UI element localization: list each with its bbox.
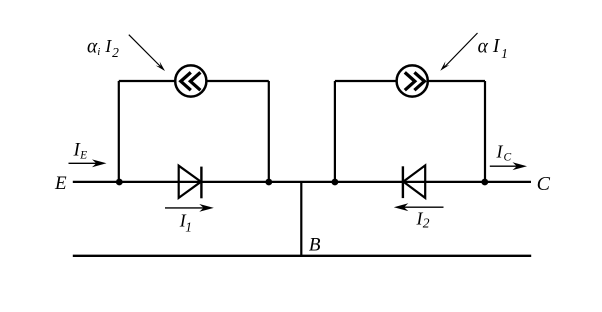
pointer arrow to U2 [440, 33, 477, 71]
svg-text:I1: I1 [179, 211, 192, 235]
current source U2 alpha*I1 [397, 65, 428, 96]
arrow IC current direction [490, 162, 527, 170]
arrow IE current direction [69, 159, 107, 167]
svg-text:IE: IE [73, 139, 88, 161]
svg-text:αI1: αI1 [478, 36, 508, 61]
wire right loop right vertical [484, 81, 486, 182]
wire right loop top [335, 80, 485, 82]
wire base vertical [300, 182, 302, 256]
node dot left loop right [265, 179, 272, 186]
wire left loop top [119, 80, 269, 82]
svg-text:B: B [309, 234, 321, 255]
svg-text:αiI2: αiI2 [87, 36, 119, 60]
wire main line E to C [73, 181, 531, 183]
diode D1 (emitter junction) [179, 166, 202, 199]
svg-text:I2: I2 [416, 208, 430, 230]
wire left loop right vertical [268, 81, 270, 182]
node dot E1 [116, 179, 123, 186]
node dot right loop left [332, 179, 339, 186]
current source U1 alpha_i*I2 [175, 65, 206, 96]
wire base bottom line [73, 255, 531, 257]
node dot C1 [481, 179, 488, 186]
svg-text:C: C [537, 173, 551, 195]
svg-text:IC: IC [496, 141, 512, 163]
arrow I2 current direction [394, 203, 444, 211]
wire right loop left vertical [334, 81, 336, 182]
wire left loop left vertical [118, 81, 120, 182]
svg-text:E: E [54, 173, 67, 194]
pointer arrow to U1 [129, 35, 165, 71]
arrow I1 current direction [165, 204, 214, 212]
diode D2 (collector junction) [403, 165, 425, 198]
